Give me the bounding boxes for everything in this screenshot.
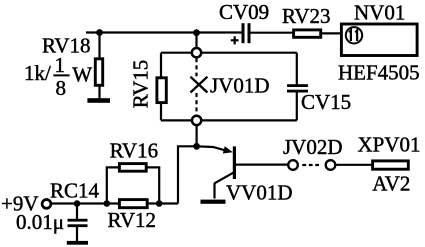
svg-text:NV01: NV01 bbox=[354, 1, 405, 25]
svg-text:JV01D: JV01D bbox=[210, 73, 270, 97]
svg-text:VV01D: VV01D bbox=[226, 180, 293, 204]
svg-text:CV09: CV09 bbox=[219, 0, 269, 24]
svg-text:RV16: RV16 bbox=[110, 138, 159, 162]
svg-text:RV23: RV23 bbox=[282, 4, 331, 28]
svg-text:RV12: RV12 bbox=[108, 208, 157, 232]
svg-text:RV15: RV15 bbox=[128, 60, 152, 109]
svg-text:CV15: CV15 bbox=[301, 90, 351, 114]
svg-text:RC14: RC14 bbox=[50, 178, 100, 202]
svg-text:HEF4505: HEF4505 bbox=[338, 61, 420, 85]
svg-text:1: 1 bbox=[55, 53, 66, 77]
svg-text:0.01μ: 0.01μ bbox=[16, 210, 64, 234]
svg-text:RV18: RV18 bbox=[42, 34, 91, 58]
svg-text:1k/: 1k/ bbox=[24, 61, 51, 85]
svg-text:JV02D: JV02D bbox=[283, 135, 343, 159]
svg-text:W: W bbox=[72, 62, 92, 86]
svg-text:AV2: AV2 bbox=[372, 172, 410, 196]
svg-text:XPV01: XPV01 bbox=[358, 133, 421, 157]
svg-text:8: 8 bbox=[56, 76, 67, 100]
